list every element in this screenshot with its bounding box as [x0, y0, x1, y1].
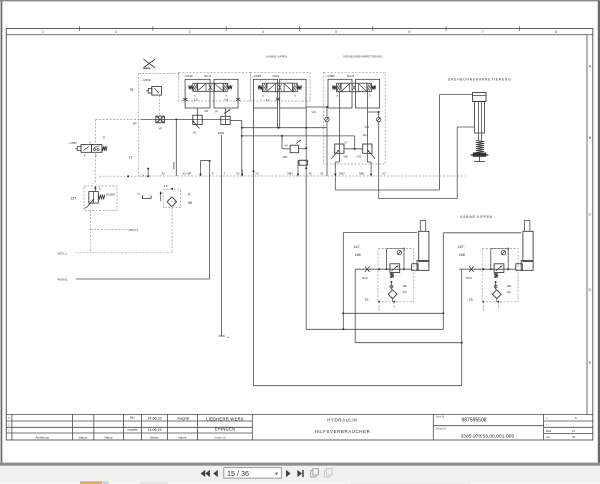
svg-text:Blatt: Blatt: [546, 429, 551, 433]
V540 closed port marks: [183, 98, 240, 101]
svg-text:24.06.15: 24.06.15: [148, 416, 162, 420]
port labels row: [162, 169, 387, 176]
svg-text:VF: VF: [215, 110, 219, 114]
svg-text:2,5: 2,5: [194, 98, 198, 102]
svg-text:WS71,2: WS71,2: [58, 252, 68, 256]
wire horizontal y232.4 to left cylinder: [343, 231, 417, 233]
check valve loop: [386, 249, 388, 270]
dashed supply line SP: [95, 119, 140, 121]
svg-text:79: 79: [469, 298, 473, 302]
svg-text:180: 180: [402, 284, 407, 288]
coupling WV: [365, 267, 370, 273]
svg-text:LIEBHERR WERK: LIEBHERR WERK: [206, 416, 244, 421]
svg-text:Gesamt (x): Gesamt (x): [214, 436, 226, 439]
suction arrow: [160, 193, 162, 202]
svg-text:PA(TA,E: PA(TA,E: [58, 278, 68, 282]
dashed WS72,3 line: [90, 229, 128, 231]
svg-text:HILFSVERBRAUCHER: HILFSVERBRAUCHER: [315, 429, 371, 434]
svg-text:Datum: Datum: [150, 435, 159, 439]
svg-text:VF: VF: [159, 127, 163, 131]
arrow into relief valve: [95, 187, 97, 191]
manufacturer cell LIEBHERR WERK EHINGEN: [206, 416, 244, 439]
drawing title HYDRAULIK HILFSVERBRAUCHER: [315, 417, 371, 434]
dashed enclosure V539 group: [139, 73, 179, 176]
wire jog KC MP: [200, 160, 202, 169]
svg-text:P: P: [212, 172, 214, 176]
dashed pilot line to V587: [94, 120, 96, 145]
svg-text:987595508: 987595508: [462, 418, 487, 424]
svg-text:NG 6: NG 6: [204, 74, 212, 78]
svg-text:167,: 167,: [354, 245, 361, 249]
svg-text:3: 3: [103, 136, 105, 140]
nav first-page button: [201, 470, 210, 477]
svg-text:167,: 167,: [458, 245, 465, 249]
svg-text:6: 6: [408, 30, 410, 34]
svg-text:ausgabe: ausgabe: [127, 428, 138, 432]
wire feed B (long vertical x306.2): [305, 176, 307, 329]
svg-text:WV,8: WV,8: [362, 277, 368, 280]
dashed enclosure assembly: [482, 249, 518, 302]
wire V540 a-port down: [197, 108, 199, 115]
zone boundary tick marks: [80, 26, 520, 31]
svg-text:KABINE KIPPEN: KABINE KIPPEN: [266, 55, 287, 59]
wire V582 left box sides down: [253, 108, 255, 176]
svg-text:N1: N1: [193, 131, 197, 135]
svg-text:~V5B1: ~V5B1: [326, 74, 336, 78]
wire filter to node: [392, 299, 394, 302]
wire V7-V32 connecting line: [344, 148, 363, 150]
title block column labels: [35, 416, 186, 440]
svg-text:~V582: ~V582: [252, 74, 261, 78]
partial second toolbar row: [0, 481, 600, 484]
V582 closed port mark: [276, 98, 280, 101]
spring below valve: [494, 273, 498, 278]
svg-text:V11: V11: [312, 110, 317, 114]
valve V32: [363, 144, 375, 159]
wire elbow VF2 to manifold line: [230, 119, 242, 121]
svg-text:Name: Name: [178, 435, 186, 439]
svg-text:79: 79: [364, 298, 368, 302]
window right edge: [598, 1, 600, 464]
svg-text:3: 3: [188, 30, 190, 34]
zone column numbers 1-8: [42, 30, 557, 34]
nav prev-page button: [213, 470, 218, 477]
document numbers: [436, 416, 514, 440]
restrictor: [494, 285, 497, 288]
svg-text:SP: SP: [133, 122, 137, 126]
valve V1 (pressure reducer): [193, 115, 203, 128]
svg-text:KABINE KIPPEN: KABINE KIPPEN: [461, 215, 493, 219]
svg-text:77: 77: [129, 156, 133, 160]
svg-text:180: 180: [507, 284, 512, 288]
subplate boxes V582: [254, 79, 278, 108]
drawing frame inner top line: [6, 34, 593, 36]
dashed enclosure assembly: [378, 249, 414, 302]
plugged-port X symbol: [143, 59, 155, 68]
svg-text:0,8: 0,8: [164, 184, 168, 188]
svg-text:5: 5: [335, 30, 337, 34]
cylinder drehbuehne rod: [478, 102, 480, 141]
svg-text:168: 168: [459, 253, 465, 257]
cylinder body: [419, 231, 429, 261]
restrictor: [390, 285, 393, 288]
svg-text:78: 78: [130, 88, 134, 92]
svg-text:C: C: [589, 212, 592, 217]
svg-text:NG 6: NG 6: [347, 74, 355, 78]
cylinder rod: [524, 220, 526, 231]
svg-text:168: 168: [355, 253, 361, 257]
title block grid: [6, 415, 593, 441]
wire return line PA: [76, 278, 210, 280]
revision dates and name: [148, 416, 190, 432]
svg-text:Ident-Nr.: Ident-Nr.: [436, 416, 445, 419]
svg-text:Änderung: Änderung: [35, 435, 48, 439]
wire horizontal y329.3: [306, 328, 443, 330]
wire jog MB1: [297, 160, 299, 169]
svg-text:137: 137: [71, 196, 77, 200]
toolbar background: [0, 466, 600, 481]
revision row numbers: [8, 416, 10, 433]
svg-text:M1: M1: [205, 109, 209, 113]
svg-text:V6: V6: [285, 144, 289, 148]
wire V582 right box side down: [305, 108, 307, 176]
relief valve 137: [85, 192, 105, 210]
svg-text:2000: 2000: [218, 131, 225, 135]
nav prev-view icon: [311, 469, 319, 477]
svg-text:8: 8: [555, 30, 557, 34]
cylinder rod: [419, 220, 421, 231]
filter (diamond): [167, 197, 177, 207]
wire tank drop from KC port: [241, 128, 243, 176]
svg-text:24.06.15: 24.06.15: [148, 428, 162, 432]
wire MB2 to cylinder mid: [379, 197, 458, 199]
svg-text:KC MP: KC MP: [183, 172, 191, 176]
wire vertical x343.3: [342, 232, 344, 329]
wire branch down from main line: [175, 119, 177, 176]
wire vertical x443.3: [442, 233, 444, 329]
svg-text:~V539: ~V539: [142, 78, 151, 82]
svg-text:200: 200: [283, 155, 288, 159]
check valve V12 branch: [367, 111, 378, 113]
valve VF2 (pressure valve): [221, 110, 231, 125]
svg-text:KC: KC: [309, 172, 313, 176]
directional valve V5B1: [337, 83, 342, 92]
dashed enclosure valve group V540: [179, 72, 251, 101]
port tick: [173, 162, 175, 169]
wire manifold line B: [242, 135, 355, 137]
dashed manifold boundary: [139, 175, 465, 177]
cylinder drehbuehne barrel: [475, 102, 485, 134]
wire vertical x461.7: [461, 270, 463, 386]
svg-text:A2: A2: [162, 172, 166, 176]
svg-text:140: 140: [344, 155, 349, 159]
dashed enclosure filter: [163, 190, 180, 208]
wire horizontal y342.7: [355, 342, 462, 344]
cylinder lock block: [473, 153, 486, 157]
svg-text:88: 88: [188, 201, 192, 205]
check valve loop: [490, 249, 492, 270]
svg-text:MA2: MA2: [339, 172, 345, 176]
dashed enclosure valve group V5B1: [324, 72, 386, 164]
cylinder port block: [516, 264, 523, 271]
orange button fragment: [80, 481, 102, 484]
svg-text:Rev.: Rev.: [130, 416, 136, 420]
wire V5B1 b-port down: [366, 92, 368, 144]
wire V540 b-port down: [225, 108, 227, 116]
svg-text:KC: KC: [383, 172, 387, 176]
svg-text:A: A: [589, 64, 592, 69]
svg-text:HYDRAULIK: HYDRAULIK: [327, 417, 358, 422]
valve V7: [332, 144, 345, 159]
svg-text:15 / 36: 15 / 36: [227, 469, 249, 478]
toolbar separator band: [0, 463, 600, 466]
svg-text:KC: KC: [320, 172, 324, 176]
svg-text:EHINGEN: EHINGEN: [215, 427, 236, 432]
zone row letters: [589, 64, 592, 365]
feed line: [355, 268, 411, 270]
svg-text:KC: KC: [236, 172, 240, 176]
brake valve: [390, 264, 400, 273]
svg-text:bar: bar: [403, 290, 407, 294]
wire main pressure line: [141, 118, 231, 120]
dashed WS71,2 line: [76, 252, 172, 254]
feed line: [459, 268, 515, 270]
svg-text:~V587: ~V587: [68, 141, 77, 145]
window top edge: [0, 0, 600, 1]
svg-text:WV,8: WV,8: [466, 277, 472, 280]
svg-text:DREHBÜHNENARRETIERUNG: DREHBÜHNENARRETIERUNG: [448, 78, 512, 82]
svg-text:von: von: [546, 436, 551, 439]
svg-text:MB2: MB2: [359, 172, 365, 176]
brake valve: [494, 264, 504, 273]
svg-text:V32: V32: [357, 155, 362, 159]
svg-text:1: 1: [42, 30, 44, 34]
valve V6 with wire: [281, 136, 283, 149]
dashed enclosure relief: [84, 186, 117, 211]
check valve V11: [306, 106, 327, 108]
svg-text:NG6: NG6: [273, 74, 280, 78]
wires V7/V32 down to ports: [338, 153, 340, 162]
wire manifold line A: [242, 127, 327, 129]
window left edge: [1, 1, 3, 464]
nav next-view icon: [324, 469, 332, 477]
filter diamond: [492, 290, 501, 299]
cylinder drehbuehne cap: [473, 93, 487, 102]
wire horizontal y313.3: [343, 312, 443, 314]
drawing frame inner right line: [586, 35, 588, 415]
cylinder body: [523, 231, 533, 261]
svg-text:KC: KC: [256, 172, 260, 176]
wire horizontal y232.8 to right cylinder: [443, 232, 521, 234]
valve V587 (3/2 solenoid): [75, 141, 107, 157]
tank line end T: [218, 335, 224, 337]
svg-text:V7: V7: [345, 141, 349, 145]
svg-text:Zeichn-Nr.: Zeichn-Nr.: [436, 427, 447, 430]
svg-text:bar: bar: [507, 290, 511, 294]
svg-text:8: 8: [188, 193, 190, 197]
subplate boxes V5B1: [328, 79, 352, 108]
spring below valve: [390, 273, 394, 278]
dashed enclosure valve group V582: [250, 72, 310, 101]
svg-text:3,0: 3,0: [224, 98, 228, 102]
junction node: [175, 118, 177, 120]
directional valve V582: [262, 83, 267, 92]
wire V5B1 a-port down: [338, 92, 340, 144]
wire filter to node: [496, 299, 498, 302]
svg-text:D: D: [589, 287, 592, 292]
svg-text:~V540: ~V540: [184, 74, 193, 78]
wire vertical x355.2: [354, 269, 356, 343]
svg-text:V12: V12: [365, 125, 370, 129]
dashed stubs below assembly: [378, 302, 380, 313]
filter diamond: [388, 290, 397, 299]
sheet number table: [546, 416, 577, 439]
svg-text:DREHBÜHNENARRETIERUNG: DREHBÜHNENARRETIERUNG: [343, 55, 382, 59]
svg-text:2: 2: [115, 30, 117, 34]
directional valve V540: [193, 83, 198, 91]
wire bottom horizontal y385.7: [254, 385, 462, 387]
svg-text:7: 7: [482, 30, 484, 34]
svg-text:E: E: [589, 360, 592, 365]
wire tank long line: [221, 135, 223, 336]
dashed L-port line: [99, 175, 148, 177]
svg-text:Datum: Datum: [79, 435, 88, 439]
dashed stubs below assembly: [482, 302, 484, 313]
svg-text:4: 4: [262, 30, 264, 34]
dashed line below V587: [94, 152, 96, 183]
cylinder bottom flange: [417, 261, 429, 271]
valve V539: [146, 86, 161, 116]
svg-text:50 BAR: 50 BAR: [106, 193, 115, 197]
svg-text:B: B: [589, 135, 592, 140]
svg-text:MB1: MB1: [288, 172, 294, 176]
svg-text:5,5: 5,5: [266, 98, 270, 102]
wire feed A (long vertical x253.5): [253, 176, 255, 386]
coupling WV: [469, 267, 474, 273]
cylinder spring: [476, 141, 484, 153]
cylinder port block: [412, 264, 419, 271]
svg-text:3385-970,53,00,001-005: 3385-970,53,00,001-005: [461, 433, 515, 439]
cylinder bottom flange: [521, 261, 533, 271]
svg-text:110: 110: [363, 133, 368, 137]
nav page number field: [224, 468, 282, 479]
wire MA2 to cylinder top: [334, 177, 336, 190]
nav next-page button: [286, 470, 291, 477]
nav last-page button: [297, 470, 303, 477]
svg-text:Iwegraß: Iwegraß: [178, 416, 190, 420]
svg-text:Name: Name: [104, 435, 112, 439]
node L: [147, 168, 149, 170]
subplate boxes V540: [185, 79, 210, 108]
coupling VF: [156, 116, 165, 123]
component small box on line: [299, 160, 308, 165]
svg-text:WS72,3: WS72,3: [129, 228, 139, 232]
